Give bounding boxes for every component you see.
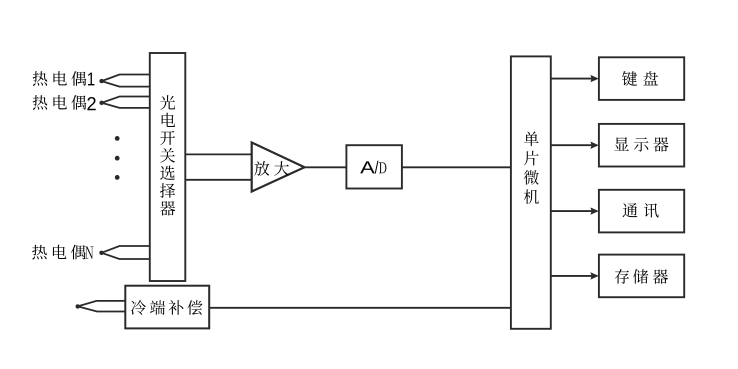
cold junction compensation box (冷端补偿): [125, 286, 209, 329]
single-chip microcomputer box (单片微机): [511, 56, 551, 328]
display box (显示器): [599, 124, 684, 167]
thermocouple TC2 wire pair to selector: [102, 97, 151, 108]
keyboard box (键盘): [599, 57, 684, 100]
memory box (存储器): [599, 255, 684, 298]
label "热电偶1" for thermocouple input 1: [33, 71, 95, 86]
wire: selector output lower to amplifier input: [185, 179, 251, 181]
memory box label "存储器": [615, 269, 668, 284]
wire+arrow: microcomputer to keyboard: [551, 75, 599, 82]
wire: amplifier output to A/D: [305, 166, 347, 168]
amplifier triangle (放大): [252, 143, 305, 192]
keyboard box label "键盘": [622, 71, 658, 86]
wire+arrow: microcomputer to memory: [551, 272, 599, 279]
cold-junction sensor wire pair: [78, 301, 126, 312]
ellipsis dot 1 (more channels): [115, 136, 120, 141]
cold junction compensation label "冷端补偿": [131, 300, 202, 315]
selector box vertical label "光电开关选择器": [160, 95, 175, 215]
thermocouple TCN wire pair to selector: [102, 246, 151, 259]
A/D converter box: [346, 145, 402, 188]
cold-junction sensor dot: [76, 304, 80, 308]
display box label "显示器": [614, 137, 668, 151]
thermocouple TC2 junction dot: [99, 101, 103, 105]
photoelectric switch selector box (光电开关选择器): [150, 53, 186, 281]
amplifier label "放大": [254, 161, 289, 176]
label "热电偶N" for thermocouple input N: [32, 245, 93, 260]
ellipsis dot 2 (more channels): [115, 156, 120, 161]
wire: A/D output to microcomputer: [402, 166, 511, 168]
wire+arrow: microcomputer to display: [551, 142, 599, 149]
microcomputer vertical label "单片微机": [524, 131, 539, 204]
thermocouple TC1 wire pair to selector: [102, 75, 151, 87]
thermocouple TC1 junction dot: [99, 79, 103, 83]
wire+arrow: microcomputer to communication: [551, 207, 599, 214]
ellipsis dot 3 (more channels): [115, 175, 120, 180]
thermocouple TCN junction dot: [99, 251, 103, 255]
wire: selector output upper to amplifier input: [185, 153, 251, 155]
label "热电偶2" for thermocouple input 2: [33, 95, 96, 110]
communication box label "通讯": [622, 203, 658, 218]
A/D converter label "A/D": [360, 161, 386, 174]
communication box (通讯): [599, 190, 684, 233]
wire: cold junction compensation to microcomputer: [209, 307, 511, 309]
